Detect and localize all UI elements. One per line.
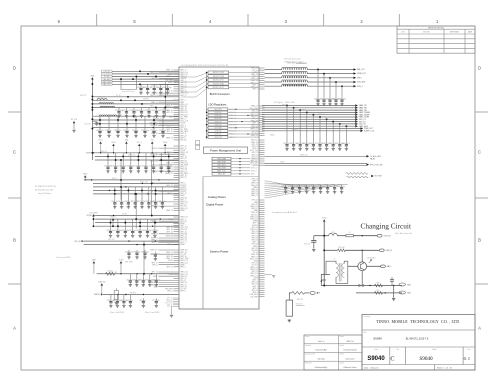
svg-text:CBL_PWR: CBL_PWR — [180, 129, 188, 131]
ground RT1 — [288, 319, 291, 321]
svg-text:SIM_VCC: SIM_VCC — [251, 140, 259, 142]
wire — [73, 123, 75, 129]
svg-text:LDO Regulators: LDO Regulators — [208, 104, 227, 107]
svg-text:C735: C735 — [310, 186, 314, 188]
svg-text:GPIO_3: GPIO_3 — [180, 219, 186, 221]
PMU1 left pin — [174, 197, 180, 199]
wire stack drop — [171, 306, 173, 315]
wire stub stack — [173, 297, 179, 299]
wire fan to BUCK 2 — [181, 76, 208, 82]
wire gnd drop — [393, 286, 395, 298]
svg-text:VREG_GP2: VREG_GP2 — [218, 174, 226, 176]
resistor R92 — [375, 292, 383, 295]
PMU1 right pin — [259, 222, 265, 224]
title block number row line — [362, 364, 475, 366]
signoff row line — [304, 343, 362, 345]
junction VBAT rail — [91, 118, 93, 120]
battery top wire — [326, 261, 336, 274]
svg-text:VREG_L15: VREG_L15 — [180, 202, 188, 204]
svg-text:C123 1uF: C123 1uF — [84, 124, 91, 126]
title block div date/sheet — [434, 365, 436, 371]
svg-text:C522: C522 — [331, 186, 335, 188]
svg-text:5R1 R77: 5R1 R77 — [80, 95, 87, 97]
svg-text:VDDPX1: VDDPX1 — [86, 153, 92, 155]
svg-text:C327: C327 — [122, 110, 126, 112]
svg-text:RESIN_N: RESIN_N — [318, 114, 325, 116]
wire rail branch — [92, 121, 96, 123]
svg-text:4.7u: 4.7u — [347, 143, 350, 145]
PMU1 left pin — [174, 193, 180, 195]
svg-text:VCOIN: VCOIN — [168, 260, 173, 262]
junction VBAT rail — [91, 99, 93, 101]
junction tap 0 — [286, 105, 288, 107]
junction — [385, 292, 386, 293]
wire net VDD_P3 — [262, 123, 355, 125]
svg-text:C782: C782 — [114, 230, 118, 232]
PMU1 right pin — [259, 111, 265, 113]
svg-text:BUCK5 1.3V CP: BUCK5 1.3V CP — [213, 87, 224, 89]
wire feed stub — [207, 133, 209, 135]
wire flag stem — [100, 144, 102, 153]
border tick top — [398, 14, 400, 26]
resistor R90 — [338, 249, 346, 252]
svg-text:GPIO_16: GPIO_16 — [252, 282, 258, 284]
wire bus — [95, 159, 179, 161]
capacitor CI1 — [116, 295, 118, 302]
resistor R91 — [375, 284, 383, 287]
svg-text:VPH_PWR: VPH_PWR — [125, 262, 133, 264]
svg-text:D: D — [478, 66, 481, 71]
svg-text:S9040: S9040 — [367, 356, 385, 362]
svg-text:C415: C415 — [329, 143, 333, 145]
svg-text:C145: C145 — [165, 166, 169, 168]
net flag bus a — [93, 152, 95, 154]
svg-text:GPIO_12: GPIO_12 — [252, 110, 258, 112]
svg-text:VREG_TCXO: VREG_TCXO — [217, 171, 226, 173]
svg-text:R93 10K: R93 10K — [297, 299, 303, 301]
svg-text:C803: C803 — [124, 201, 128, 203]
PMU1 left pin — [159, 77, 180, 79]
PMU1 right pin — [259, 281, 265, 283]
svg-text:VREG_L8: VREG_L8 — [180, 238, 187, 240]
wire bus — [93, 103, 179, 105]
PMU1 left pin — [174, 243, 180, 245]
PMU1 left pin — [174, 80, 180, 82]
PMU1 right pin — [259, 224, 265, 226]
svg-text:GPIO_8: GPIO_8 — [252, 292, 258, 294]
svg-text:USB_VBUS: USB_VBUS — [250, 294, 258, 296]
wire net GPS_TCXO — [265, 163, 367, 165]
svg-text:VREG_S2: VREG_S2 — [180, 229, 187, 231]
capacitor CE1 — [121, 187, 123, 203]
svg-text:VDD_AUX: VDD_AUX — [357, 81, 366, 84]
PMU1 left pin — [174, 188, 180, 190]
svg-text:USIM_VCC: USIM_VCC — [180, 250, 189, 252]
PMU1 right pin — [259, 71, 265, 73]
svg-text:VDDPX2: VDDPX2 — [180, 187, 186, 189]
wire bus — [84, 240, 179, 242]
PMU1 right pin — [259, 260, 265, 262]
inductor FB21 — [282, 71, 307, 73]
wire vertical link — [164, 82, 166, 116]
svg-text:GPIO_21: GPIO_21 — [180, 204, 186, 206]
wire fan diagonal — [265, 183, 293, 184]
inductor FB20 — [282, 67, 307, 69]
LDO regulator box 10 — [208, 136, 228, 139]
PMU1 left pin — [159, 275, 180, 277]
capacitor CD3 — [130, 153, 132, 167]
svg-text:10u: 10u — [155, 130, 158, 132]
capacitor CI2 — [123, 295, 125, 302]
VREG box VREG_RUIM — [212, 167, 231, 170]
svg-text:GPIO_2: GPIO_2 — [180, 183, 186, 185]
svg-text:VREG_S3: VREG_S3 — [251, 74, 258, 76]
PMU1 left pin — [174, 116, 180, 118]
capacitor CD0 — [107, 153, 109, 167]
capacitor CC6 — [153, 116, 155, 131]
svg-text:GPIO_22: GPIO_22 — [252, 144, 258, 146]
PMU1 right pin — [259, 73, 265, 75]
svg-text:GPIO_22: GPIO_22 — [252, 152, 258, 154]
svg-text:C936: C936 — [130, 110, 134, 112]
svg-text:PM_KPD: PM_KPD — [251, 158, 257, 160]
capacitor C82 — [299, 185, 301, 188]
capacitor C78 — [339, 124, 341, 144]
svg-text:VDDPX2: VDDPX2 — [180, 191, 186, 193]
PMU1 left pin — [174, 203, 180, 205]
svg-text:C979: C979 — [115, 110, 119, 112]
PMU1 left pin — [174, 151, 180, 153]
no-connect squiggle — [357, 173, 361, 178]
wire net VBAT_BB — [262, 109, 355, 111]
svg-text:R92: R92 — [377, 290, 380, 292]
LDO regulator box 5 — [208, 120, 228, 123]
net label VBAT_MSMA — [355, 111, 358, 114]
wire LCD_VCI — [112, 70, 179, 72]
svg-text:TX_AGC_ADJ: TX_AGC_ADJ — [370, 155, 381, 158]
VREG box VREG_MSMC — [212, 160, 231, 163]
svg-text:MSME: MSME — [180, 210, 185, 212]
svg-text:SDC1_CMD: SDC1_CMD — [165, 303, 172, 305]
capacitor C85 — [320, 185, 322, 188]
svg-text:GPIO_1: GPIO_1 — [282, 105, 288, 107]
PMU1 right pin — [259, 128, 265, 130]
PMU1 left pin — [174, 209, 180, 211]
transistor Q1 body — [358, 262, 367, 271]
svg-text:C807: C807 — [290, 143, 294, 145]
svg-text:GTT Bypass 4R6 DI WA: GTT Bypass 4R6 DI WA — [274, 101, 295, 104]
wire bus — [95, 155, 179, 157]
PMU1 left pin — [174, 86, 180, 88]
svg-text:USB_ID: USB_ID — [386, 250, 393, 252]
svg-text:BUCK2 1.1V BB: BUCK2 1.1V BB — [213, 76, 224, 78]
PMU1 right pin — [259, 270, 265, 272]
PMU1 left pin — [174, 126, 180, 128]
svg-text:VREG_L8: VREG_L8 — [251, 183, 258, 185]
capacitor C75 — [319, 117, 321, 144]
PMU1 left pin — [159, 284, 180, 286]
wire — [313, 236, 315, 241]
svg-text:XO_IN: XO_IN — [253, 252, 258, 254]
PMU1 left pin — [159, 92, 180, 94]
wire vertical link — [135, 194, 137, 228]
PMU1 left pin — [174, 177, 180, 179]
wire net USIM_VCC segment b — [307, 73, 354, 75]
svg-text:VDDPX2: VDDPX2 — [180, 185, 186, 187]
svg-text:VREG: VREG — [83, 173, 88, 175]
power flag VBAT — [91, 77, 94, 79]
wire bus — [93, 179, 179, 181]
svg-text:VREG_L13: VREG_L13 — [180, 114, 188, 116]
svg-text:GPIO_17: GPIO_17 — [180, 242, 186, 244]
no-connect squiggle — [346, 173, 350, 178]
wire VBAT rail — [91, 80, 93, 161]
svg-text:C171: C171 — [138, 201, 142, 203]
PMU1 right pin — [259, 266, 265, 268]
svg-text:VREG_L2: VREG_L2 — [251, 208, 258, 210]
capacitor C64 — [341, 86, 343, 99]
svg-text:A: A — [13, 326, 16, 331]
capacitor CF0 — [110, 219, 112, 231]
wire — [391, 277, 393, 279]
svg-text:VREG_L15: VREG_L15 — [250, 273, 258, 275]
svg-text:VREG_S2: VREG_S2 — [251, 168, 258, 170]
svg-text:C: C — [478, 150, 481, 155]
svg-text:VREG_L1: VREG_L1 — [251, 171, 257, 173]
wire stub stack — [173, 302, 179, 304]
PMU1 right pin — [259, 252, 265, 254]
net label VRTC — [354, 77, 357, 80]
border tick left — [8, 283, 21, 285]
wire net VDD_P1 — [262, 118, 355, 120]
LDO regulator box 1 — [208, 108, 228, 111]
svg-text:C904: C904 — [139, 279, 143, 281]
svg-text:VDDPX2: VDDPX2 — [84, 180, 90, 182]
svg-text:C779: C779 — [152, 201, 156, 203]
svg-text:BL-9041T2_2010.7.6: BL-9041T2_2010.7.6 — [406, 337, 429, 340]
svg-text:C925: C925 — [118, 201, 122, 203]
transistor Q1 internals — [361, 262, 364, 270]
capacitor CF1 — [117, 219, 119, 231]
svg-text:GPIO_10: GPIO_10 — [180, 231, 186, 233]
net label VDD_P3 — [355, 123, 358, 126]
svg-text:Jack .fu: Jack .fu — [318, 341, 325, 343]
svg-text:C667: C667 — [136, 230, 140, 232]
svg-text:LDO9 3.0V: LDO9 3.0V — [214, 134, 221, 136]
wire vertical link — [143, 241, 145, 274]
component box U7 — [114, 291, 118, 300]
svg-text:VREG_S1: VREG_S1 — [251, 80, 258, 82]
PMU1 right pin — [259, 80, 265, 82]
svg-text:VREG_L13: VREG_L13 — [180, 274, 188, 276]
svg-text:C251: C251 — [316, 143, 320, 145]
connector oval GND2 — [399, 291, 405, 294]
PMU1 right pin — [259, 226, 265, 228]
wire charge bottom — [321, 285, 402, 287]
PMU1 right pin — [259, 147, 265, 149]
inner power block edge — [202, 177, 204, 310]
svg-text:GPIO_15: GPIO_15 — [252, 146, 258, 148]
svg-text:GPIO_17: GPIO_17 — [180, 91, 186, 93]
PMU1 right pin — [259, 69, 265, 71]
PMU1 left pin — [159, 84, 180, 86]
junction tap 4 — [312, 114, 314, 116]
PMU1 left pin — [174, 166, 180, 168]
svg-text:VCOIN: VCOIN — [180, 150, 185, 152]
PMU1 right pin — [259, 162, 265, 164]
PMU1 left pin — [159, 220, 180, 222]
svg-text:VREG_L9: VREG_L9 — [251, 106, 258, 108]
svg-text:SDC1_CLK: SDC1_CLK — [250, 258, 258, 260]
svg-text:LDO8 2.9V: LDO8 2.9V — [214, 131, 221, 133]
svg-text:VREG_S3: VREG_S3 — [180, 169, 187, 171]
svg-text:Digital Power: Digital Power — [206, 203, 223, 207]
svg-text:C738: C738 — [145, 201, 149, 203]
power flag VCHG main — [323, 219, 326, 221]
net flag bus c — [93, 214, 95, 216]
svg-text:VREG_L17: VREG_L17 — [180, 217, 188, 219]
svg-text:RF_CLK: RF_CLK — [71, 119, 78, 121]
capacitor CG1 — [136, 250, 138, 253]
svg-text:VREG_S3: VREG_S3 — [180, 197, 187, 199]
PMU1 left pin — [174, 231, 180, 233]
PMU1 left pin — [159, 286, 180, 288]
svg-text:GPIO_34: GPIO_34 — [180, 252, 186, 254]
PMU1 right pin — [259, 145, 265, 147]
PMU1 right pin — [259, 291, 265, 293]
net label VDD_P1 — [355, 118, 358, 121]
svg-text:C782: C782 — [289, 186, 293, 188]
PMU1 right pin — [259, 203, 265, 205]
svg-text:VPH_PWR: VPH_PWR — [150, 154, 158, 156]
svg-text:C411: C411 — [126, 279, 130, 281]
svg-text:VREG_S3: VREG_S3 — [251, 254, 258, 256]
PMU1 right pin — [259, 88, 265, 90]
svg-text:GPIO_16: GPIO_16 — [166, 129, 172, 131]
svg-text:100p: 100p — [157, 279, 161, 281]
wire from LDO box 2 — [228, 111, 259, 113]
revision table header line — [397, 33, 475, 35]
capacitor C81 — [292, 185, 294, 188]
wire bus — [95, 225, 178, 227]
svg-text:C472: C472 — [131, 201, 135, 203]
PMU1 right pin — [259, 241, 265, 243]
junction — [155, 76, 157, 78]
capacitor CF6 — [154, 219, 156, 231]
svg-text:D: D — [13, 66, 16, 71]
wire bus — [93, 186, 179, 188]
wire bus ext — [85, 179, 93, 181]
PMU1 right pin — [259, 199, 265, 201]
junction — [100, 152, 101, 153]
PMU1 right pin — [259, 82, 265, 84]
svg-text:VPH_PWR: VPH_PWR — [165, 289, 173, 291]
svg-text:VREG_L14: VREG_L14 — [180, 262, 188, 264]
capacitor CC0 — [99, 116, 101, 131]
svg-text:USB_VBUS: USB_VBUS — [180, 131, 188, 133]
svg-text:GPIO_18: GPIO_18 — [252, 284, 258, 286]
wire fan to BUCK 5 — [181, 87, 208, 97]
capacitor CC5 — [144, 116, 146, 131]
svg-text:C371: C371 — [104, 166, 108, 168]
PMU1 left pin — [174, 118, 180, 120]
PMU1 left pin — [174, 290, 180, 292]
svg-text:C995: C995 — [303, 186, 307, 188]
PMU1 right pin — [259, 160, 265, 162]
wire feed stub — [207, 75, 209, 77]
svg-text:100n: 100n — [156, 253, 160, 255]
junction on LDO wire — [241, 121, 242, 122]
junction — [152, 152, 153, 153]
svg-text:C494: C494 — [150, 166, 154, 168]
wire net TX_AGC — [265, 155, 367, 157]
capacitor CJ — [142, 298, 144, 301]
svg-text:1n: 1n — [137, 130, 139, 132]
svg-text:B: B — [478, 238, 481, 243]
wire stub stack — [173, 306, 179, 308]
wire from VREG box VREG_GP2 — [231, 173, 250, 175]
wire from LDO box 3 — [228, 114, 259, 116]
LDO regulator box 9 — [208, 133, 228, 136]
wire bus — [97, 273, 179, 275]
junction — [139, 152, 140, 153]
svg-text:C546: C546 — [134, 166, 138, 168]
ground stack — [170, 314, 173, 316]
power flag VCC_C — [138, 144, 141, 146]
svg-text:C211: C211 — [112, 166, 116, 168]
svg-text:GPIO_8: GPIO_8 — [252, 288, 258, 290]
svg-text:BUCK1 1.2V RF: BUCK1 1.2V RF — [213, 72, 224, 74]
wire net SLEEP_CLK — [262, 130, 361, 132]
svg-text:GPIO_26: GPIO_26 — [252, 231, 258, 233]
wire drain — [367, 265, 381, 267]
svg-text:S9040: S9040 — [419, 356, 433, 362]
svg-text:GPIO_31: GPIO_31 — [180, 284, 186, 286]
svg-text:C230: C230 — [323, 143, 327, 145]
svg-text:SDC1_CLK: SDC1_CLK — [180, 227, 188, 229]
PMU1 right pin — [259, 296, 265, 298]
svg-text:VREG_L18: VREG_L18 — [250, 269, 258, 271]
PMU1 right pin — [259, 289, 265, 291]
svg-text:GPIO_33: GPIO_33 — [180, 158, 186, 160]
PMU1 right pin — [259, 277, 265, 279]
svg-text:Analog Power: Analog Power — [208, 195, 226, 199]
svg-text:C214: C214 — [283, 143, 287, 145]
svg-text:SIM_VCC: SIM_VCC — [108, 239, 116, 241]
svg-text:C661: C661 — [151, 253, 155, 255]
BUCK regulator box 4 — [208, 82, 229, 85]
svg-text:C385: C385 — [105, 130, 109, 132]
wire bus — [95, 152, 179, 154]
border tick top — [96, 14, 98, 26]
power flag VREG — [84, 175, 87, 177]
svg-text:C434: C434 — [121, 230, 125, 232]
junction — [128, 240, 129, 241]
capacitor C87 — [334, 185, 336, 188]
junction — [113, 152, 114, 153]
PMU1 right pin — [259, 158, 265, 160]
wire from LDO box 6 — [228, 124, 259, 126]
wire feed stub — [207, 111, 209, 113]
svg-text:VREG_L1: VREG_L1 — [180, 86, 187, 88]
junction — [126, 123, 127, 124]
capacitor CH4 — [155, 274, 157, 281]
svg-text:GPIO_35: GPIO_35 — [180, 82, 186, 84]
capacitor CE4 — [141, 187, 143, 203]
power flag VBAT_BB — [101, 283, 104, 285]
wire from LDO box 10 — [228, 136, 259, 138]
svg-text:BT_PCM: BT_PCM — [375, 176, 382, 178]
